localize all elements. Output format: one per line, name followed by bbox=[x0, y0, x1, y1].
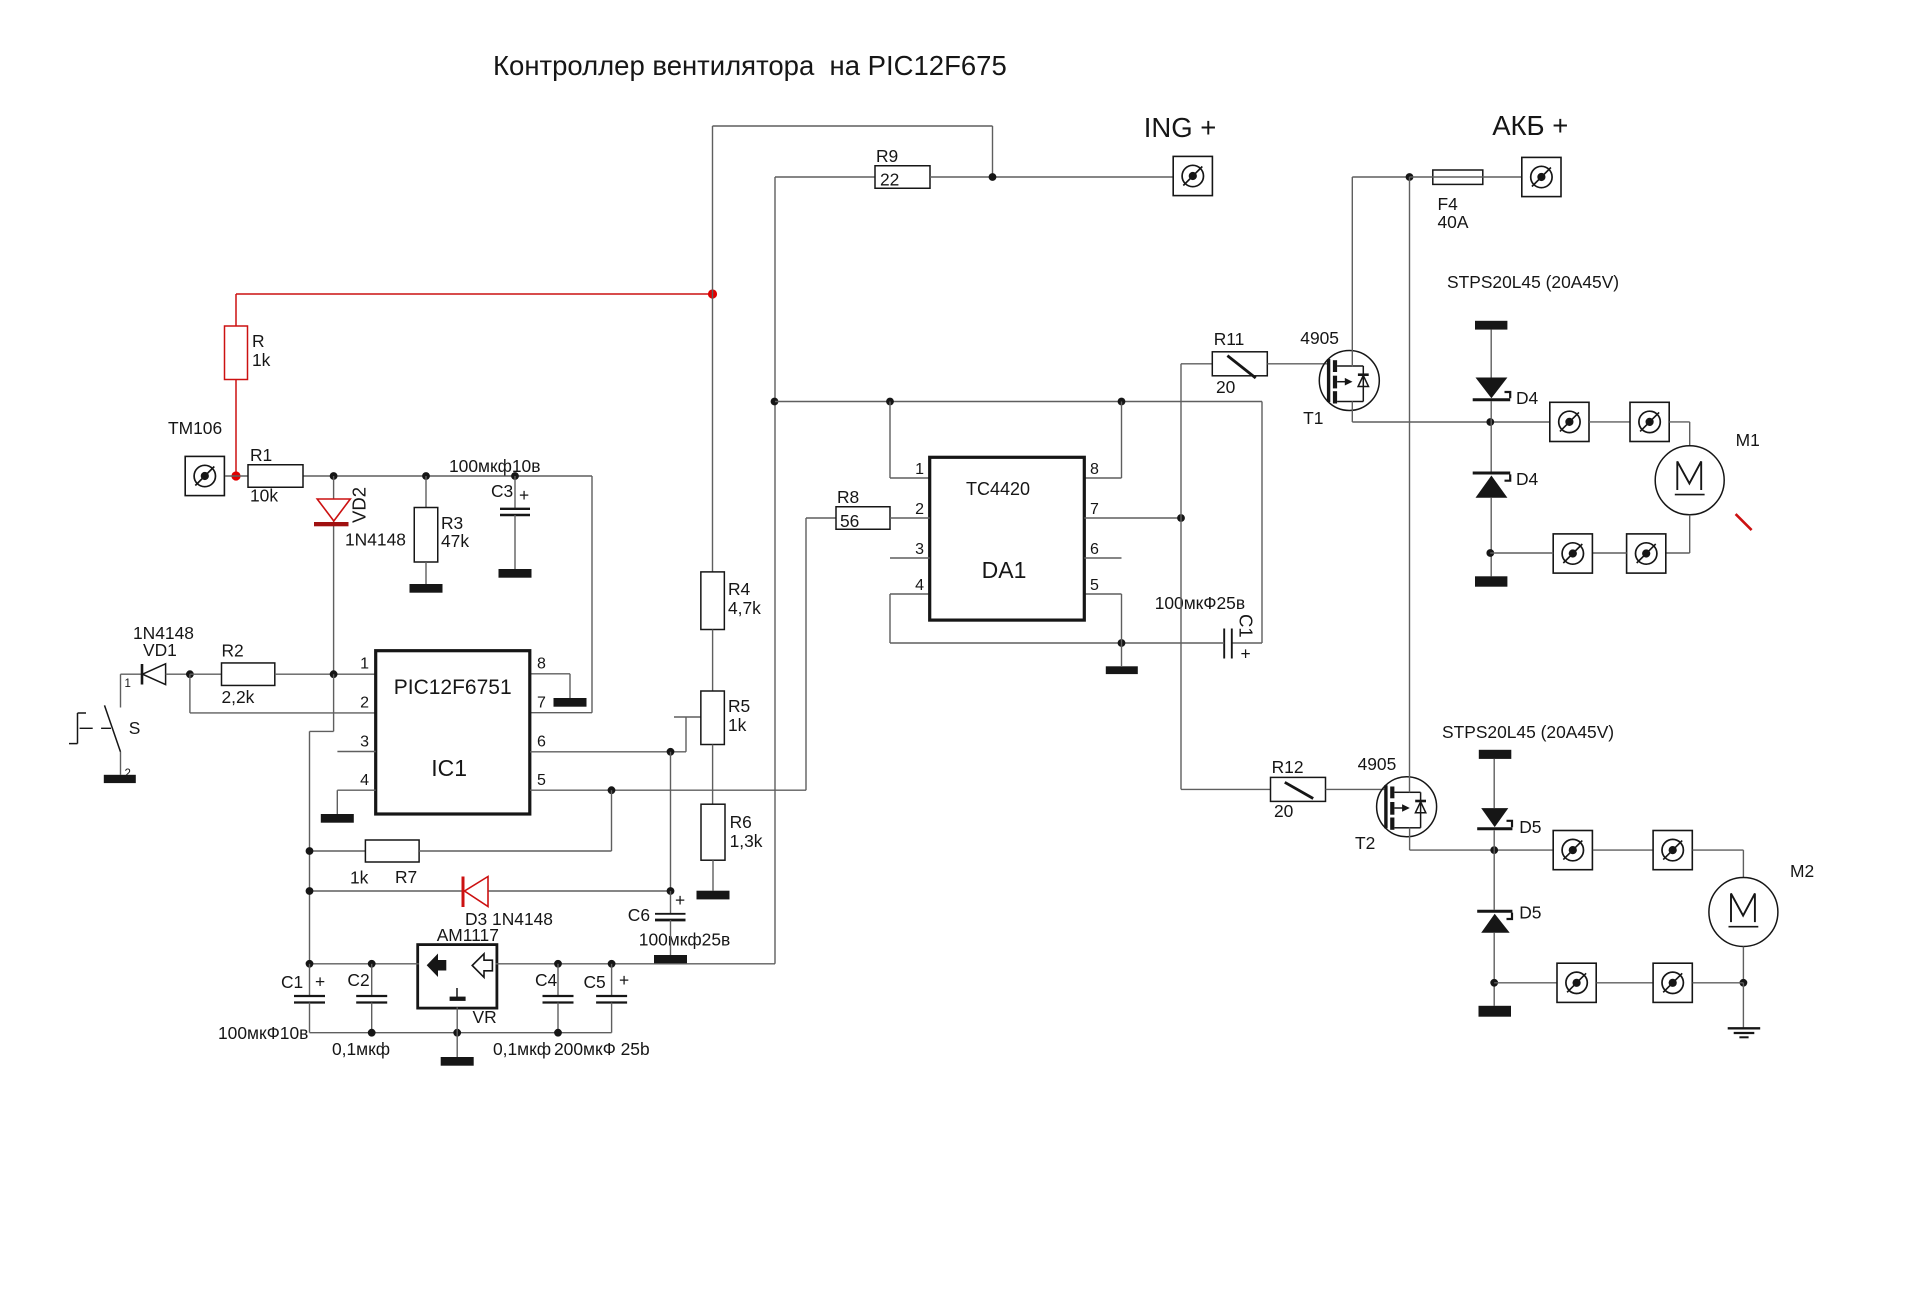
wire R4 to R5 bbox=[712, 630, 714, 692]
svg-text:2,2k: 2,2k bbox=[222, 687, 255, 707]
node D4 lower junction bbox=[1486, 549, 1494, 557]
terminal M1 minus B bbox=[1627, 534, 1666, 573]
wire R12 left bbox=[1181, 788, 1271, 790]
diode D5 upper cathode bbox=[1477, 827, 1512, 830]
svg-text:4905: 4905 bbox=[1300, 328, 1339, 348]
svg-text:Контроллер вентилятора на PIC: Контроллер вентилятора на PIC12F675 bbox=[493, 50, 1007, 81]
wire C3 to ground bbox=[514, 515, 516, 569]
svg-text:R8: R8 bbox=[837, 487, 859, 507]
svg-text:C4: C4 bbox=[535, 970, 558, 990]
terminal ING+ bbox=[1173, 156, 1212, 195]
diode D4 lower triangle bbox=[1476, 476, 1508, 498]
wire M2 terminal to node bbox=[1693, 982, 1744, 984]
resistor R4 body bbox=[701, 572, 725, 630]
node pin6 junction bbox=[667, 748, 675, 756]
svg-text:0,1мкф: 0,1мкф bbox=[332, 1039, 390, 1059]
svg-text:6: 6 bbox=[537, 734, 546, 751]
node red junction at TM106 bbox=[231, 471, 240, 480]
svg-text:ING +: ING + bbox=[1144, 112, 1217, 143]
node C1 top junction bbox=[306, 960, 314, 968]
wire R12 to T2 gate bbox=[1326, 788, 1385, 790]
svg-text:R2: R2 bbox=[222, 641, 244, 661]
wire DA1 pin7 row bbox=[1084, 517, 1181, 519]
svg-text:6: 6 bbox=[1090, 541, 1099, 558]
svg-text:C5: C5 bbox=[584, 972, 606, 992]
wire M1 bottom row left bbox=[1490, 552, 1553, 554]
diode D3 cathode bar bbox=[462, 877, 465, 908]
wire top bus down to R9 row bbox=[992, 126, 994, 177]
diode VD1 cathode bar bbox=[141, 664, 144, 685]
wire R9 left with drop bbox=[775, 176, 875, 178]
svg-text:TM106: TM106 bbox=[168, 418, 222, 438]
wire R9 to ING terminal bbox=[930, 176, 1173, 178]
ground R6 bbox=[697, 891, 730, 900]
wire PIC pin5 row bbox=[530, 789, 806, 791]
svg-text:1k: 1k bbox=[350, 868, 369, 888]
svg-text:1k: 1k bbox=[728, 715, 747, 735]
terminal M2 minus B bbox=[1653, 963, 1692, 1002]
svg-text:4,7k: 4,7k bbox=[728, 598, 761, 618]
svg-text:AM1117: AM1117 bbox=[437, 925, 499, 945]
wire DA1 pin6 stub bbox=[1084, 557, 1121, 559]
svg-text:PIC12F6751: PIC12F6751 bbox=[394, 676, 512, 699]
diode D4 lower cathode bbox=[1473, 472, 1511, 475]
svg-text:STPS20L45 (20A45V): STPS20L45 (20A45V) bbox=[1447, 272, 1619, 292]
wire F4 to AKB terminal bbox=[1483, 176, 1522, 178]
wire bus vertical to R4 bbox=[712, 126, 714, 572]
resistor R2 body bbox=[222, 663, 275, 686]
motor M1 body bbox=[1655, 446, 1724, 515]
wire 12V row bbox=[775, 401, 1262, 403]
node fuse junction bbox=[1406, 173, 1414, 181]
resistor R9 body bbox=[875, 166, 930, 189]
transistor T2 4905 bbox=[1377, 777, 1437, 837]
diode D4 upper cathode bbox=[1473, 398, 1511, 401]
diode D3 triangle bbox=[465, 877, 489, 907]
svg-text:8: 8 bbox=[1090, 461, 1099, 478]
wire DA1 pin1 riser bbox=[889, 402, 891, 479]
node VD2 top junction bbox=[330, 472, 338, 480]
wire R2 to PIC pin1 bbox=[275, 673, 376, 675]
ground R3 bbox=[410, 584, 443, 593]
node VR ground junction bbox=[453, 1029, 461, 1037]
wire D4 mid column lower bbox=[1490, 422, 1492, 473]
wire T2 source row bbox=[1410, 849, 1553, 851]
svg-text:7: 7 bbox=[1090, 501, 1099, 518]
wire C1 top bbox=[309, 964, 311, 996]
wire node down to pin2 row bbox=[189, 674, 191, 713]
ground PIC pin8 bbox=[554, 698, 587, 707]
power bar D4 anode top bbox=[1475, 321, 1507, 330]
node C3 top junction bbox=[511, 472, 519, 480]
resistor R11 body bbox=[1212, 352, 1267, 376]
svg-text:R3: R3 bbox=[441, 513, 463, 533]
svg-text:1: 1 bbox=[360, 656, 369, 673]
node DA1 ground junction bbox=[1118, 639, 1126, 647]
wire D5 mid column lower bbox=[1493, 850, 1495, 910]
svg-text:2: 2 bbox=[915, 501, 924, 518]
wire D4 top column bbox=[1490, 330, 1492, 378]
capacitor C3 plates bbox=[500, 508, 530, 510]
svg-text:0,1мкф: 0,1мкф bbox=[493, 1039, 551, 1059]
node pin7 junction bbox=[1177, 514, 1185, 522]
diode D5 lower triangle bbox=[1481, 914, 1510, 933]
svg-text:M2: M2 bbox=[1790, 861, 1814, 881]
terminal M2 plus B bbox=[1653, 831, 1692, 870]
wire switch pin1 riser bbox=[120, 674, 122, 707]
node R3 top junction bbox=[422, 472, 430, 480]
terminal M1 minus A bbox=[1553, 534, 1592, 573]
wire C4 bottom bbox=[557, 1003, 559, 1033]
wire M1 top between terminals bbox=[1589, 421, 1630, 423]
svg-text:R5: R5 bbox=[728, 696, 750, 716]
node C5 top junction bbox=[608, 960, 616, 968]
svg-text:40A: 40A bbox=[1438, 212, 1469, 232]
wire T1 drain to fuse node bbox=[1352, 176, 1409, 178]
wire D5 top column bbox=[1493, 759, 1495, 808]
svg-text:D4: D4 bbox=[1516, 469, 1539, 489]
svg-text:R9: R9 bbox=[876, 146, 898, 166]
svg-text:STPS20L45 (20A45V): STPS20L45 (20A45V) bbox=[1442, 722, 1614, 742]
svg-text:100мкф10в: 100мкф10в bbox=[449, 456, 540, 476]
ground C6 bbox=[654, 955, 687, 964]
capacitor C2 plates bbox=[356, 995, 387, 997]
wire D5 mid column upper bbox=[1493, 830, 1495, 850]
svg-text:C1: C1 bbox=[281, 972, 303, 992]
svg-text:VR: VR bbox=[473, 1007, 497, 1027]
node VD2 bottom junction pin1 row bbox=[330, 670, 338, 678]
regulator VR body bbox=[418, 945, 497, 1009]
node red junction at bus bbox=[708, 289, 717, 298]
wire R3 to ground bbox=[425, 562, 427, 584]
switch S actuator bracket bbox=[77, 713, 79, 744]
node D3 left junction bbox=[306, 887, 314, 895]
wire 12V row corner down to C1cap bbox=[1261, 402, 1263, 644]
svg-text:R6: R6 bbox=[730, 812, 752, 832]
terminal M1 plus B bbox=[1630, 402, 1669, 441]
svg-text:C6: C6 bbox=[628, 905, 650, 925]
wire VD2 column jog to lower bus bbox=[333, 674, 335, 731]
terminal M2 plus A bbox=[1553, 831, 1592, 870]
capacitor C4 plates bbox=[543, 995, 574, 997]
svg-text:VD1: VD1 bbox=[143, 640, 177, 660]
diode VD2 cathode bar bbox=[314, 522, 349, 526]
wire C3 top bbox=[514, 476, 516, 509]
resistor R11 slash bbox=[1227, 356, 1255, 378]
wire pin6 node down to D3 node bbox=[670, 752, 672, 891]
switch S blade bbox=[105, 705, 121, 752]
resistor R1 body bbox=[248, 465, 303, 488]
svg-text:8: 8 bbox=[537, 656, 546, 673]
wire DA1 pin4 drop bbox=[890, 593, 930, 595]
wire C6 top bbox=[670, 891, 672, 913]
ground bar D5 bottom bbox=[1479, 1006, 1512, 1017]
svg-text:+: + bbox=[675, 890, 685, 910]
svg-text:20: 20 bbox=[1216, 377, 1235, 397]
transistor T1 4905 bbox=[1319, 351, 1379, 411]
wire switch to VD1 bbox=[121, 673, 143, 675]
wire T2 source down bbox=[1409, 828, 1411, 850]
wire VR ground stem bbox=[456, 1007, 458, 1057]
terminal M1 plus A bbox=[1550, 402, 1589, 441]
svg-text:DA1: DA1 bbox=[982, 557, 1027, 583]
svg-text:R7: R7 bbox=[395, 867, 417, 887]
ground PIC pin4 bbox=[321, 814, 354, 823]
wire M2 top to motor bbox=[1693, 849, 1744, 851]
wire T1 source row bbox=[1352, 421, 1550, 423]
wire switch pin2 to ground bbox=[120, 752, 122, 775]
diode D5 upper triangle bbox=[1481, 808, 1508, 827]
wire top bus horizontal bbox=[713, 125, 993, 127]
terminal M2 minus A bbox=[1557, 963, 1596, 1002]
wire D4 mid column upper bbox=[1490, 401, 1492, 422]
wire red from node to resistor R bbox=[235, 294, 237, 326]
wire M2 top between terminals bbox=[1593, 849, 1654, 851]
wire D4 bottom column bbox=[1490, 498, 1492, 577]
svg-text:D5: D5 bbox=[1519, 817, 1541, 837]
regulator VR output arrow bbox=[427, 954, 447, 978]
wire C5 bottom bbox=[611, 1003, 613, 1033]
IC IC1 PIC12F675 body bbox=[376, 651, 530, 814]
wire R3 top bbox=[425, 476, 427, 508]
svg-text:1k: 1k bbox=[252, 350, 271, 370]
node M2 bottom junction bbox=[1740, 979, 1748, 987]
wire PIC pin8 stub bbox=[530, 673, 570, 675]
wire M2 bottom between terminals bbox=[1596, 982, 1653, 984]
earth ground M2 bbox=[1728, 1027, 1761, 1029]
svg-text:1N4148: 1N4148 bbox=[345, 530, 406, 550]
wire T1 drain up bbox=[1351, 177, 1353, 366]
svg-text:R1: R1 bbox=[250, 445, 272, 465]
node pin5 R7 junction bbox=[608, 786, 616, 794]
wire 12V row right of VR bbox=[495, 963, 775, 965]
diode VD2 triangle bbox=[317, 499, 350, 521]
node DA1 pin8 riser junction bbox=[1118, 398, 1126, 406]
capacitor C1 plates bbox=[294, 995, 325, 997]
capacitor C1(boost) plates bbox=[1223, 629, 1225, 659]
svg-text:3: 3 bbox=[915, 541, 924, 558]
node D5 upper junction bbox=[1490, 846, 1498, 854]
svg-text:R11: R11 bbox=[1214, 329, 1245, 349]
resistor R12 slash bbox=[1285, 782, 1313, 798]
wire R11 left bbox=[1181, 363, 1212, 365]
wire VDD row drop to PIC pin7 bbox=[591, 476, 593, 713]
svg-text:АКБ +: АКБ + bbox=[1492, 110, 1568, 141]
svg-text:+: + bbox=[1241, 644, 1251, 664]
wire PIC pin4 to ground bbox=[337, 789, 375, 791]
terminal TM106 bbox=[185, 456, 224, 495]
regulator VR ground mark bbox=[456, 988, 458, 997]
wire PIC pin6 row bbox=[530, 751, 686, 753]
node D3 C6 junction bbox=[667, 887, 675, 895]
resistor R7 body bbox=[365, 840, 419, 862]
svg-text:4905: 4905 bbox=[1358, 754, 1397, 774]
wire R7 to pin5 riser bbox=[419, 850, 611, 852]
svg-text:1,3k: 1,3k bbox=[730, 831, 763, 851]
svg-text:TC4420: TC4420 bbox=[966, 479, 1030, 499]
node R7 left junction bbox=[306, 847, 314, 855]
wire R7 row left bbox=[310, 850, 366, 852]
resistor R1k body bbox=[225, 326, 248, 380]
ground switch S bbox=[104, 775, 136, 783]
svg-text:+: + bbox=[619, 970, 629, 990]
svg-text:200мкФ 25b: 200мкФ 25b bbox=[554, 1039, 650, 1059]
wire red resistor R to TM106 node bbox=[235, 380, 237, 477]
svg-text:VD2: VD2 bbox=[348, 487, 369, 523]
wire bottom row bbox=[310, 1032, 612, 1034]
node VD1 R2 junction bbox=[186, 670, 194, 678]
svg-text:C2: C2 bbox=[347, 970, 369, 990]
diode D5 lower cathode bbox=[1477, 910, 1512, 913]
svg-text:T1: T1 bbox=[1303, 408, 1323, 428]
diode D4 upper triangle bbox=[1476, 378, 1508, 399]
wire DA1 pin8 riser bbox=[1121, 402, 1123, 479]
wire M2 bottom from motor bbox=[1742, 947, 1744, 983]
wire T2 drain up to fuse node bbox=[1409, 177, 1411, 792]
wire DA1 ground row bbox=[890, 642, 1224, 644]
svg-text:F4: F4 bbox=[1438, 194, 1459, 214]
node D4 upper junction bbox=[1486, 418, 1494, 426]
svg-text:100мкФ10в: 100мкФ10в bbox=[218, 1023, 308, 1043]
svg-text:T2: T2 bbox=[1355, 833, 1375, 853]
resistor R3 body bbox=[414, 508, 438, 563]
wire R6 to ground bbox=[712, 860, 714, 891]
wire pin6 up to R5 tap bbox=[685, 717, 687, 752]
wire C2 top bbox=[371, 964, 373, 996]
svg-text:M1: M1 bbox=[1736, 430, 1760, 450]
wire M1 top to motor bbox=[1669, 421, 1690, 423]
diode VD1 triangle bbox=[143, 664, 166, 685]
wire pin7 drop to R12 bbox=[1180, 518, 1182, 789]
svg-text:5: 5 bbox=[537, 772, 546, 789]
ground C3 bbox=[499, 569, 532, 578]
wire R8 left bbox=[806, 517, 836, 519]
svg-text:R12: R12 bbox=[1272, 757, 1304, 777]
IC DA1 TC4420 body bbox=[930, 457, 1085, 620]
svg-text:D4: D4 bbox=[1516, 388, 1539, 408]
resistor R12 body bbox=[1271, 777, 1326, 801]
wire C5 top bbox=[611, 964, 613, 996]
capacitor C6 plates bbox=[655, 913, 686, 915]
node R9 output junction bbox=[989, 173, 997, 181]
svg-text:20: 20 bbox=[1274, 801, 1293, 821]
wire pin7 riser to R11 bbox=[1180, 364, 1182, 518]
svg-text:+: + bbox=[315, 972, 325, 992]
svg-text:D5: D5 bbox=[1519, 903, 1541, 923]
node C4 bottom junction bbox=[554, 1029, 562, 1037]
wire T1 source down bbox=[1351, 402, 1353, 423]
mark red slash near M1 bbox=[1736, 514, 1752, 530]
wire DA1 pin5 drop bbox=[1084, 593, 1121, 595]
svg-text:4: 4 bbox=[360, 772, 369, 789]
wire VD1 to node bbox=[166, 673, 190, 675]
svg-text:2: 2 bbox=[360, 695, 369, 712]
wire VDD row from TM106 to pin7 drop bbox=[225, 475, 592, 477]
svg-text:C3: C3 bbox=[491, 481, 513, 501]
node C2 bottom junction bbox=[368, 1029, 376, 1037]
svg-text:3: 3 bbox=[360, 734, 369, 751]
svg-text:S: S bbox=[129, 718, 141, 738]
wire M2 node to earth bbox=[1742, 983, 1744, 1029]
fuse F4 body bbox=[1433, 170, 1483, 184]
wire C4 top bbox=[557, 964, 559, 996]
wire C6 to ground bbox=[670, 920, 672, 955]
wire VD2 anode column bbox=[333, 476, 335, 674]
wire R5 to R6 bbox=[712, 745, 714, 805]
resistor R8 body bbox=[836, 507, 890, 530]
svg-text:4: 4 bbox=[915, 577, 924, 594]
ground bar D4 bottom bbox=[1475, 576, 1507, 586]
wire C2 bottom bbox=[371, 1003, 373, 1033]
label M in motor M1 bbox=[1675, 461, 1705, 494]
wire M1 bottom from motor bbox=[1689, 515, 1691, 553]
svg-text:1: 1 bbox=[125, 678, 131, 690]
node C2 top junction bbox=[368, 960, 376, 968]
svg-text:R4: R4 bbox=[728, 579, 751, 599]
svg-text:100мкф25в: 100мкф25в bbox=[639, 930, 730, 950]
wire fuse node to F4 bbox=[1410, 176, 1433, 178]
wire DA1 pin3 stub bbox=[890, 557, 930, 559]
switch S actuator dashed link bbox=[80, 727, 93, 729]
motor M2 body bbox=[1709, 878, 1778, 947]
wire DA1 ground stem bbox=[1121, 643, 1123, 666]
wire D5 bottom column bbox=[1493, 933, 1495, 1006]
svg-text:IC1: IC1 bbox=[431, 755, 467, 781]
wire PIC pin3 stub bbox=[337, 751, 375, 753]
node C4 top junction bbox=[554, 960, 562, 968]
svg-text:100мкФ25в: 100мкФ25в bbox=[1155, 593, 1245, 613]
wire D3 row bbox=[310, 890, 671, 892]
wire R8 to DA1 pin2 bbox=[890, 517, 930, 519]
svg-text:47k: 47k bbox=[441, 531, 469, 551]
resistor R5 body bbox=[701, 691, 725, 745]
svg-text:10k: 10k bbox=[250, 486, 278, 506]
wire 5V row left bbox=[310, 963, 419, 965]
wire M2 bottom row bbox=[1494, 982, 1557, 984]
wire C1 bottom bbox=[309, 1003, 311, 1033]
fuse F4 through line bbox=[1433, 176, 1483, 178]
svg-text:R: R bbox=[252, 331, 265, 351]
wire R11 to T1 gate bbox=[1267, 363, 1327, 365]
svg-text:56: 56 bbox=[840, 511, 859, 531]
svg-text:1: 1 bbox=[915, 461, 924, 478]
wire pin5 row riser to R8 bbox=[805, 518, 807, 790]
resistor R6 body bbox=[701, 804, 725, 860]
label M in motor M2 bbox=[1729, 894, 1759, 927]
wire red +12V feed horizontal bbox=[236, 293, 713, 295]
svg-text:5: 5 bbox=[1090, 577, 1099, 594]
svg-text:7: 7 bbox=[537, 695, 546, 712]
svg-text:+: + bbox=[519, 485, 529, 505]
node D5 lower junction bbox=[1490, 979, 1498, 987]
node 12V bus junction bbox=[771, 398, 779, 406]
svg-text:22: 22 bbox=[880, 170, 899, 190]
ground VR bbox=[441, 1057, 474, 1066]
capacitor C5 plates bbox=[596, 995, 627, 997]
terminal АКБ+ bbox=[1522, 157, 1561, 196]
regulator VR input arrow bbox=[472, 954, 492, 978]
node DA1 pin1 riser junction bbox=[886, 398, 894, 406]
svg-text:C1: C1 bbox=[1236, 614, 1257, 638]
power bar D5 anode top bbox=[1479, 750, 1512, 759]
ground DA1 bbox=[1106, 666, 1138, 674]
wire M1 bottom between terminals bbox=[1592, 552, 1626, 554]
wire node to R2 bbox=[190, 673, 222, 675]
